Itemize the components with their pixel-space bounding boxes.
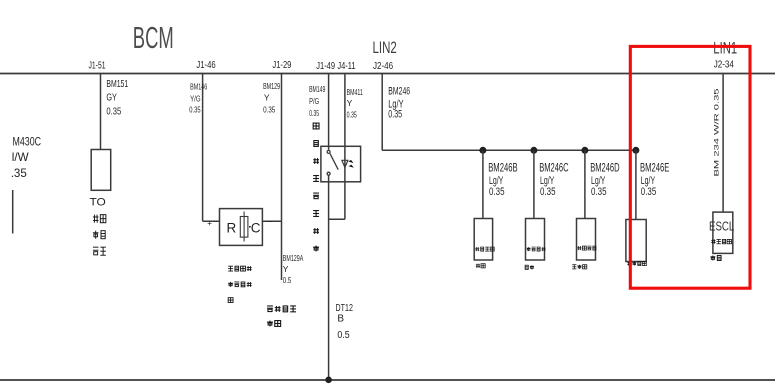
svg-text:0.35: 0.35 (540, 186, 556, 198)
svg-text:−: − (267, 217, 272, 227)
svg-text:l/W: l/W (12, 150, 29, 164)
svg-text:J1-29: J1-29 (272, 60, 291, 71)
svg-text:ESCL: ESCL (709, 219, 734, 233)
svg-text:J1-51: J1-51 (89, 61, 106, 72)
svg-text:0.5: 0.5 (337, 330, 350, 341)
svg-text:LIN1: LIN1 (713, 40, 737, 58)
svg-text:Y/G: Y/G (190, 93, 201, 103)
svg-text:DT12: DT12 (336, 303, 354, 314)
svg-text:Y: Y (264, 92, 270, 102)
svg-text:0.35: 0.35 (591, 186, 607, 198)
svg-text:Y: Y (347, 98, 353, 108)
svg-text:0.5: 0.5 (283, 275, 292, 285)
svg-text:BM246C: BM246C (539, 160, 569, 174)
svg-text:J1-46: J1-46 (196, 60, 216, 71)
svg-text:0.35: 0.35 (489, 186, 505, 198)
svg-text:BM129A: BM129A (283, 253, 304, 263)
svg-text:BM246D: BM246D (590, 160, 620, 174)
svg-text:0.35: 0.35 (309, 108, 319, 118)
svg-text:M430C: M430C (13, 134, 42, 148)
svg-text:0.35: 0.35 (347, 109, 357, 119)
svg-text:0.35: 0.35 (263, 105, 275, 115)
svg-text:0.35: 0.35 (106, 106, 121, 118)
svg-text:BM129: BM129 (263, 81, 280, 91)
svg-text:GY: GY (106, 91, 117, 103)
svg-text:P/G: P/G (309, 96, 319, 106)
svg-text:+: + (207, 219, 212, 228)
svg-text:B: B (337, 314, 344, 325)
svg-text:R: R (227, 221, 237, 236)
svg-text:.35: .35 (11, 166, 27, 180)
svg-text:J1-49: J1-49 (316, 61, 335, 72)
svg-text:BM146: BM146 (190, 82, 207, 92)
svg-text:0.35: 0.35 (388, 108, 402, 120)
svg-text:Y: Y (283, 264, 289, 274)
svg-text:BM149: BM149 (309, 84, 325, 94)
svg-text:BM151: BM151 (106, 78, 128, 90)
svg-text:BCM: BCM (133, 20, 174, 55)
svg-text:TO: TO (90, 196, 107, 208)
svg-text:C: C (251, 221, 261, 236)
svg-text:BM411: BM411 (347, 87, 363, 97)
svg-text:BM246B: BM246B (488, 160, 517, 174)
svg-text:LIN2: LIN2 (373, 39, 397, 57)
svg-text:J4-11: J4-11 (337, 61, 356, 72)
svg-text:J2-46: J2-46 (373, 61, 393, 72)
svg-text:0.35: 0.35 (189, 104, 200, 114)
svg-text:BM246: BM246 (388, 85, 410, 97)
svg-text:J2-34: J2-34 (714, 60, 735, 71)
svg-text:0.35: 0.35 (641, 186, 657, 198)
svg-text:BM 234 W/R 0.35: BM 234 W/R 0.35 (714, 88, 721, 176)
svg-text:BM246E: BM246E (640, 160, 669, 174)
